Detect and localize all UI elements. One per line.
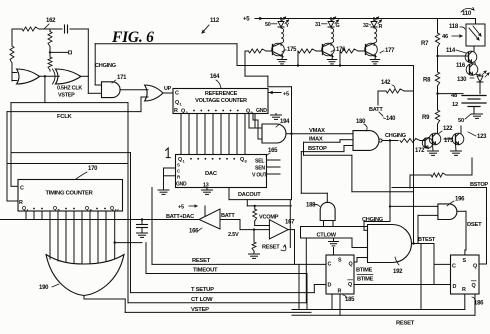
svg-text:175: 175	[287, 47, 297, 53]
svg-text:190: 190	[39, 285, 49, 291]
svg-text:V OUT: V OUT	[252, 173, 268, 179]
svg-text:172: 172	[415, 148, 425, 154]
svg-text:12: 12	[452, 102, 458, 108]
svg-text:TIMING COUNTER: TIMING COUNTER	[45, 191, 93, 197]
svg-text:186: 186	[474, 301, 484, 307]
svg-text:114: 114	[446, 48, 456, 54]
svg-text:164: 164	[210, 74, 220, 80]
svg-text:188: 188	[306, 203, 316, 209]
svg-text:+5: +5	[243, 17, 250, 23]
svg-text:116: 116	[456, 63, 466, 69]
svg-text:VOLTAGE COUNTER: VOLTAGE COUNTER	[195, 98, 247, 104]
svg-text:BATT+DAC: BATT+DAC	[166, 214, 194, 220]
svg-text:110: 110	[462, 11, 472, 17]
svg-text:194: 194	[280, 119, 290, 125]
svg-text:BTEST: BTEST	[418, 237, 436, 243]
svg-text:48: 48	[451, 93, 458, 99]
svg-text:G: G	[336, 23, 340, 29]
svg-text:CT LOW: CT LOW	[191, 297, 213, 303]
svg-text:32: 32	[363, 23, 369, 29]
svg-text:C: C	[20, 186, 24, 192]
svg-text:170: 170	[88, 166, 98, 172]
svg-text:IMAX: IMAX	[309, 137, 323, 143]
svg-text:162: 162	[46, 18, 56, 24]
svg-text:R: R	[174, 108, 178, 114]
svg-text:DSET: DSET	[467, 222, 482, 228]
svg-text:171: 171	[117, 75, 127, 81]
svg-text:Q: Q	[473, 264, 477, 270]
svg-text:DACOUT: DACOUT	[238, 192, 261, 198]
svg-text:BSTOP: BSTOP	[470, 182, 488, 188]
svg-text:FCLK: FCLK	[57, 114, 73, 120]
svg-text:31: 31	[315, 22, 321, 28]
svg-text:SEL: SEL	[255, 159, 265, 165]
svg-text:+5: +5	[178, 205, 184, 211]
svg-text:BTIME: BTIME	[357, 277, 374, 283]
svg-text:BTIME: BTIME	[356, 268, 373, 274]
svg-text:VCOMP: VCOMP	[259, 215, 279, 221]
svg-text:192: 192	[393, 269, 403, 275]
svg-text:BATT: BATT	[221, 213, 235, 219]
svg-text:177: 177	[385, 48, 395, 54]
svg-text:Q: Q	[472, 283, 476, 289]
svg-text:130: 130	[457, 77, 467, 83]
svg-text:GND: GND	[256, 108, 267, 114]
svg-text:Q: Q	[348, 282, 352, 288]
svg-text:112: 112	[210, 18, 220, 24]
svg-text:Q: Q	[22, 206, 26, 212]
svg-text:+5: +5	[283, 92, 289, 98]
svg-text:Q: Q	[181, 109, 185, 115]
svg-text:196: 196	[455, 197, 465, 203]
svg-text:Q: Q	[110, 206, 114, 212]
svg-text:142: 142	[381, 80, 391, 86]
svg-text:R9: R9	[422, 115, 430, 121]
svg-text:50: 50	[458, 118, 464, 124]
svg-text:FIG. 6: FIG. 6	[111, 29, 154, 46]
svg-text:SEN: SEN	[255, 166, 265, 172]
svg-text:CHGING: CHGING	[385, 133, 406, 139]
svg-text:C: C	[175, 91, 179, 97]
svg-text:TIMEOUT: TIMEOUT	[193, 268, 218, 274]
svg-text:167: 167	[285, 220, 295, 226]
svg-text:Q: Q	[240, 157, 244, 163]
svg-text:RESET: RESET	[262, 245, 280, 251]
svg-text:C: C	[452, 264, 456, 270]
svg-text:166: 166	[189, 229, 199, 235]
svg-text:2.5V: 2.5V	[228, 232, 239, 238]
svg-text:S: S	[177, 163, 180, 168]
svg-text:Q: Q	[53, 206, 57, 212]
svg-text:RESET: RESET	[192, 258, 211, 264]
svg-text:123: 123	[477, 134, 487, 140]
svg-text:122: 122	[443, 126, 453, 132]
svg-text:118: 118	[449, 24, 459, 30]
svg-text:R7: R7	[421, 41, 429, 47]
svg-text:DAC: DAC	[205, 171, 218, 177]
svg-text:46: 46	[442, 34, 449, 40]
svg-text:BATT: BATT	[369, 107, 383, 113]
svg-text:R8: R8	[423, 78, 431, 84]
svg-text:UP: UP	[164, 86, 172, 92]
svg-text:140: 140	[386, 116, 396, 122]
svg-text:BSTOP: BSTOP	[308, 146, 327, 152]
svg-text:REFERENCE: REFERENCE	[205, 91, 238, 97]
svg-text:CTLOW: CTLOW	[317, 232, 337, 238]
svg-text:Q: Q	[85, 206, 89, 212]
svg-text:CHGING: CHGING	[95, 63, 116, 69]
svg-text:185: 185	[345, 297, 355, 303]
svg-text:D: D	[453, 284, 457, 290]
svg-text:R: R	[379, 24, 383, 30]
svg-text:GND: GND	[176, 182, 187, 188]
svg-text:VSTEP: VSTEP	[58, 93, 75, 99]
svg-text:CHGING: CHGING	[362, 217, 383, 223]
svg-text:Q: Q	[175, 100, 179, 106]
svg-text:0.5HZ CLK: 0.5HZ CLK	[57, 86, 82, 92]
svg-text:50: 50	[265, 22, 271, 28]
svg-text:Q: Q	[349, 262, 353, 268]
svg-text:13: 13	[203, 183, 209, 189]
svg-text:VMAX: VMAX	[309, 128, 325, 134]
svg-text:D: D	[328, 283, 332, 289]
svg-text:R: R	[462, 287, 466, 293]
svg-text:RESET: RESET	[396, 321, 415, 327]
svg-text:C: C	[328, 262, 332, 268]
